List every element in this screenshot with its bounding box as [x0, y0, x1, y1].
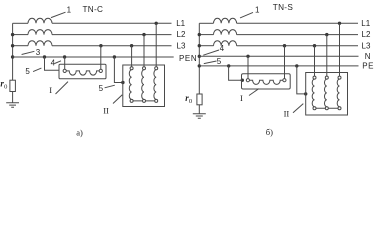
node: bus junction with PEN conductor: [11, 55, 14, 58]
ground symbol (right): [193, 114, 206, 118]
load I heater coil (right): [250, 80, 284, 84]
wire: phase feed from L3 to load I: [100, 46, 102, 70]
svg-text:3: 3: [36, 48, 41, 57]
wire: line L3 (right diagram): [237, 45, 358, 47]
leader line to label II (left): [113, 95, 122, 104]
load I heater coil (left): [66, 71, 99, 75]
svg-text:0: 0: [189, 98, 192, 105]
leader line to label 1 (left): [51, 12, 66, 17]
terminal pin of load I right (right): [283, 79, 286, 82]
motor II winding a (left): [129, 70, 131, 100]
wire: stub from bus to winding L1 (right): [199, 22, 213, 24]
node: PEN tap for enclosure of motor II: [113, 55, 116, 58]
node: junction at motor II enclosure: [121, 81, 124, 84]
svg-text:PE: PE: [362, 62, 374, 71]
terminal pin motor II c top: [155, 67, 158, 70]
motor II enclosure box (left): [123, 65, 165, 107]
svg-text:0: 0: [4, 84, 7, 91]
transformer winding 1 (phase C source coil, right): [214, 41, 237, 46]
wire: r0 to ground (left): [12, 92, 14, 103]
terminal pin of load I left (right): [246, 79, 249, 82]
resistor r0 (right earthing resistance): [197, 94, 202, 105]
transformer winding 1 (phase A source coil): [28, 18, 52, 23]
node: L3 tap to load I: [99, 44, 102, 47]
wire: stub from bus to winding L3: [13, 45, 28, 47]
wire: star-point connector of motor II (right): [315, 107, 340, 109]
terminal pin motor II a bottom (right): [313, 107, 316, 110]
svg-text:4: 4: [220, 44, 225, 53]
wire: star-point connector of motor II (left): [132, 100, 157, 102]
node: L3 tap to motor II: [130, 44, 133, 47]
transformer winding 1 (phase A source coil, right): [214, 18, 237, 23]
svg-text:5: 5: [99, 84, 104, 93]
wire: feed L2 to motor II: [143, 35, 145, 67]
wire: PEN conductor (label 3): [13, 56, 174, 58]
terminal pin motor II a top (right): [313, 76, 316, 79]
node: L2 tap to motor II: [142, 33, 145, 36]
svg-text:PEN: PEN: [179, 54, 197, 63]
motor II winding b (left): [142, 70, 144, 100]
leader line to label 5 (left): [33, 68, 41, 72]
node: L1 tap to motor II (right): [338, 22, 341, 25]
terminal pin motor II b top: [143, 67, 146, 70]
leader line to label 4 (left): [55, 61, 61, 64]
terminal pin motor II a bottom: [130, 99, 133, 102]
node: bus junction winding L3 (right): [198, 44, 201, 47]
svg-text:а): а): [76, 127, 83, 137]
node: PEN tap for N branch to load I: [63, 55, 66, 58]
load I enclosure box (left): [59, 64, 106, 79]
wire: N branch from PEN to load I terminal: [64, 57, 66, 69]
node: bus junction with winding L2: [11, 33, 14, 36]
node: bus junction with winding L3: [11, 44, 14, 47]
wire: r0 to ground (right): [198, 105, 200, 114]
svg-text:I: I: [49, 85, 52, 95]
svg-text:TN-C: TN-C: [83, 5, 104, 14]
wire: line L2 (right diagram): [237, 34, 358, 36]
svg-text:TN-S: TN-S: [273, 3, 294, 12]
node: L2 tap to motor II (right): [325, 33, 328, 36]
svg-text:L2: L2: [177, 30, 186, 39]
leader line to label II (right): [293, 104, 303, 113]
motor II winding c (left): [154, 70, 156, 100]
terminal pin motor II b top (right): [325, 76, 328, 79]
load I enclosure box (right): [242, 74, 291, 89]
node: bus junction PE conductor: [198, 64, 201, 67]
motor II enclosure box (right): [306, 73, 348, 116]
wire: line L3 (left diagram): [52, 45, 172, 47]
svg-text:б): б): [266, 127, 273, 137]
svg-text:4: 4: [51, 59, 56, 68]
motor II winding c (right): [337, 79, 339, 107]
wire: line L1 (right diagram): [237, 22, 358, 24]
terminal pin of load I left: [63, 69, 66, 72]
svg-text:II: II: [103, 105, 109, 115]
node: N tap to load I (right): [246, 55, 249, 58]
wire: source neutral bus vertical (left): [12, 23, 14, 80]
svg-text:L3: L3: [362, 41, 371, 50]
transformer winding 1 (phase B source coil, right): [214, 30, 237, 35]
leader line to label I (right): [249, 89, 259, 96]
leader line to label 4 (right): [203, 50, 219, 55]
svg-text:5: 5: [217, 57, 222, 66]
svg-text:1: 1: [255, 6, 260, 15]
node: L3 tap to motor II (right): [313, 44, 316, 47]
ground symbol (left): [6, 103, 19, 108]
terminal pin motor II b bottom (right): [325, 107, 328, 110]
terminal pin motor II c top (right): [338, 76, 341, 79]
wire: N conductor (label 4): [199, 55, 358, 57]
leader line to second label 5 (left, PE branch of motor II): [105, 85, 115, 88]
transformer winding 1 (phase B source coil): [28, 30, 52, 35]
wire: PE branch to enclosure of load I (right): [229, 66, 242, 80]
svg-text:L3: L3: [177, 41, 186, 50]
resistor r0 (left earthing resistance): [10, 80, 16, 91]
wire: phase feed from L3 to load I (right): [284, 46, 286, 79]
node: L1 tap to motor II: [155, 22, 158, 25]
wire: feed L1 to motor II: [155, 23, 157, 67]
wire: stub from bus to winding L3 (right): [199, 45, 213, 47]
leader line to label I (left): [56, 82, 69, 94]
wire: N branch to load I terminal (right): [247, 56, 249, 78]
motor II winding b (right): [324, 79, 326, 107]
svg-text:I: I: [240, 93, 243, 103]
motor II winding a (right): [312, 79, 314, 107]
wire: feed L3 to motor II: [131, 46, 133, 67]
wire: PE conductor (label 5): [199, 65, 358, 67]
svg-text:5: 5: [25, 67, 30, 76]
leader line to label 3: [22, 51, 35, 54]
node: PE tap for enclosure of motor II (right): [295, 64, 298, 67]
terminal pin motor II a top: [130, 67, 133, 70]
wire: stub from bus to winding L1: [13, 22, 28, 24]
wire: source neutral bus vertical (right): [198, 23, 200, 94]
wire: feed L3 to motor II (right): [314, 46, 316, 76]
node: bus junction winding L2 (right): [198, 33, 201, 36]
node: bus junction N conductor: [198, 55, 201, 58]
svg-text:1: 1: [67, 5, 72, 14]
svg-text:L1: L1: [361, 19, 370, 28]
svg-text:N: N: [365, 52, 371, 61]
svg-text:L1: L1: [176, 19, 185, 28]
svg-text:L2: L2: [362, 30, 371, 39]
wire: feed L1 to motor II (right): [339, 23, 341, 76]
node: PE tap for enclosure of load I (right): [227, 64, 230, 67]
node: junction at load I enclosure (right): [241, 79, 244, 82]
wire: PEN branch to enclosure of motor II: [114, 57, 122, 83]
wire: line L2 (left diagram): [52, 34, 172, 36]
terminal pin motor II b bottom: [143, 99, 146, 102]
wire: stub from bus to winding L2 (right): [199, 34, 213, 36]
node: L3 tap to load I (right): [283, 44, 286, 47]
node: PEN tap for PE branch to load I: [43, 55, 46, 58]
transformer winding 1 (phase C source coil): [28, 41, 52, 46]
terminal pin motor II c bottom (right): [338, 107, 341, 110]
node: junction at motor II enclosure (right): [304, 92, 307, 95]
wire: PE branch to enclosure of motor II (right): [297, 66, 306, 94]
terminal pin of load I right: [99, 69, 102, 72]
svg-text:II: II: [284, 109, 290, 119]
leader line to label 1 (right): [240, 12, 253, 18]
wire: PE branch from PEN to enclosure of load I: [45, 57, 60, 70]
wire: line L1 (left diagram): [52, 22, 172, 24]
wire: feed L2 to motor II (right): [326, 35, 328, 77]
leader line to label 5 (right): [204, 61, 217, 64]
wire: stub from bus to winding L2: [13, 34, 28, 36]
terminal pin motor II c bottom: [155, 99, 158, 102]
